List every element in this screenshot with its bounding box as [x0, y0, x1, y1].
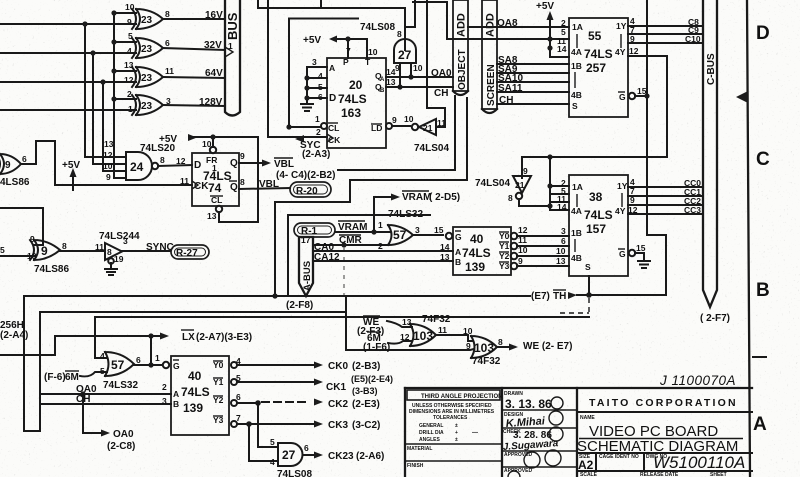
wire 163 pin3 A [307, 57, 327, 67]
svg-text:+5V: +5V [303, 35, 321, 46]
svg-text:4Y: 4Y [615, 47, 626, 57]
ground (163 inputs) [301, 104, 313, 111]
xor gate 23c (64V) [124, 60, 174, 87]
svg-text:128V: 128V [199, 97, 223, 108]
svg-text:OA8: OA8 [497, 18, 518, 29]
wire crease dashed [343, 248, 345, 300]
svg-text:9: 9 [5, 160, 11, 171]
svg-text:24: 24 [130, 160, 144, 174]
svg-text:B: B [756, 280, 770, 301]
wire vertical feed x93 [93, 53, 126, 164]
svg-text:139: 139 [465, 260, 485, 274]
svg-text:VBL: VBL [259, 179, 279, 190]
svg-text:74: 74 [208, 181, 222, 195]
label 74LS04 a [414, 143, 449, 154]
svg-text:SYNC: SYNC [146, 242, 174, 253]
wire vertical feed x85 [85, 24, 126, 157]
svg-text:4LS86: 4LS86 [0, 177, 30, 188]
svg-text:3: 3 [415, 225, 420, 235]
border zone letter A [753, 414, 767, 435]
svg-text:13: 13 [104, 139, 114, 149]
svg-text:6: 6 [136, 355, 141, 365]
wire xor input row4 [0, 109, 136, 111]
label 74F32 a [422, 314, 451, 325]
svg-text:4B: 4B [571, 253, 582, 263]
svg-text:THIRD ANGLE PROJECTION: THIRD ANGLE PROJECTION [421, 394, 502, 400]
svg-text:57: 57 [393, 228, 407, 242]
svg-text:9: 9 [30, 234, 35, 244]
svg-text:12: 12 [176, 156, 186, 166]
svg-text:11: 11 [438, 325, 447, 335]
wire SA11 [497, 83, 569, 94]
wire CA12 [313, 252, 453, 263]
wire and27a input 9 [397, 63, 402, 90]
wire 128V [163, 97, 225, 108]
svg-text:74LS04: 74LS04 [414, 143, 449, 154]
wire frame line y314 [95, 316, 589, 318]
svg-text:12: 12 [103, 150, 113, 160]
wire CMR to or57a [313, 241, 386, 251]
svg-text:10: 10 [556, 246, 566, 256]
svg-text:CH: CH [499, 95, 513, 106]
title block sign column [502, 391, 577, 477]
svg-text:6: 6 [304, 443, 309, 453]
wire SYNC [122, 242, 174, 253]
wire 157 output CC1 [628, 186, 703, 197]
svg-text:(3-C2): (3-C2) [352, 420, 380, 431]
inverter 21b (74LS04, pointing down) [508, 166, 531, 203]
svg-text:8: 8 [62, 241, 67, 251]
label 74LS08 a [360, 22, 395, 33]
wire 257 output C8 [628, 16, 703, 27]
wire inverter 21a input net [427, 0, 445, 127]
wire 257 output C10 [628, 34, 703, 44]
label 74LS86 a [0, 177, 30, 188]
wire SA8 [497, 55, 569, 66]
wire +5V rail 163 [338, 36, 378, 58]
svg-text:CA12: CA12 [314, 252, 340, 263]
wire LX branch to or57b output [148, 336, 153, 368]
wire xor input row3 [0, 81, 136, 83]
svg-text:12: 12 [400, 332, 410, 342]
svg-text:1A: 1A [572, 22, 583, 32]
label 74LS04 b [475, 178, 510, 189]
label +5V (163) [303, 35, 337, 46]
svg-text:38: 38 [589, 190, 603, 204]
svg-text:( 2-F7): ( 2-F7) [700, 313, 730, 324]
svg-text:23: 23 [141, 101, 153, 112]
svg-text:(2-C8): (2-C8) [107, 441, 135, 452]
wire +5V 257 [547, 11, 570, 57]
wire 257 output 4Y down to inverter 21b [522, 46, 667, 178]
svg-text:5: 5 [100, 366, 105, 376]
svg-text:2: 2 [162, 382, 167, 392]
svg-text:+: + [455, 430, 458, 436]
wire CK23 [303, 451, 384, 462]
svg-text:(4- C4)(2-B2): (4- C4)(2-B2) [276, 170, 335, 181]
svg-text:1A: 1A [572, 182, 583, 192]
svg-text:57: 57 [111, 358, 125, 372]
svg-text:14: 14 [557, 202, 567, 212]
wire CK input 74LS74 [36, 141, 192, 186]
svg-text:8: 8 [160, 155, 165, 165]
wire staircase B [288, 215, 430, 296]
svg-text:9: 9 [41, 244, 48, 258]
svg-text:FINISH: FINISH [407, 463, 424, 469]
svg-text:C: C [756, 149, 770, 170]
svg-text:10: 10 [463, 326, 473, 336]
wire frame TH line y296 [24, 296, 530, 431]
svg-text:8: 8 [107, 247, 112, 257]
svg-text:10: 10 [103, 161, 113, 171]
wire OA0 branch down [83, 394, 135, 452]
connector (R-27) [171, 245, 209, 259]
svg-text:(2-A6): (2-A6) [356, 451, 384, 462]
xor gate 86b (sync) [27, 234, 67, 261]
svg-text:9: 9 [523, 166, 528, 176]
or gate 57b (74LS32) [100, 351, 141, 376]
wire VRAM branch up [374, 194, 400, 233]
svg-text:CAGE IDENT NO: CAGE IDENT NO [599, 454, 639, 460]
wire 163 CK pin2 [268, 127, 327, 137]
wire Y2 branch to and27b [258, 403, 278, 447]
svg-text:B: B [173, 399, 179, 409]
svg-text:74F32: 74F32 [422, 314, 451, 325]
svg-text:CK1: CK1 [326, 382, 346, 393]
wire 157 S pin [588, 276, 590, 295]
wire and27a output [405, 0, 415, 50]
svg-text:4: 4 [318, 71, 323, 81]
svg-text:23: 23 [141, 44, 153, 55]
wire xor86a output [21, 141, 36, 164]
svg-text:4B: 4B [571, 90, 582, 100]
svg-text:12: 12 [124, 75, 134, 85]
svg-text:13: 13 [440, 252, 450, 262]
svg-text:RELEASE DATE: RELEASE DATE [640, 472, 679, 477]
svg-text:10: 10 [413, 63, 423, 73]
label WE (2-F3) [357, 316, 412, 337]
svg-text:74LS08: 74LS08 [277, 469, 312, 477]
label SYC (2-A3) [295, 135, 330, 160]
bus bar SCREEN ADD [482, 0, 497, 113]
label VRAM (on wire) [338, 221, 367, 233]
svg-text:15: 15 [637, 86, 647, 96]
svg-text:20: 20 [349, 78, 363, 92]
svg-text:11: 11 [180, 176, 189, 186]
svg-text:+5V: +5V [62, 160, 80, 171]
svg-text:15: 15 [636, 243, 646, 253]
svg-text:9: 9 [127, 17, 132, 27]
svg-text:1B: 1B [571, 228, 582, 238]
svg-text:R-20: R-20 [296, 186, 318, 197]
svg-text:(2-B3): (2-B3) [352, 361, 380, 372]
svg-text:74LS: 74LS [338, 92, 367, 106]
wire top feed y8 [258, 0, 405, 27]
wire 139a Y3 to 157 [511, 256, 569, 269]
svg-text:(2-A7)(3-E3): (2-A7)(3-E3) [196, 332, 252, 343]
svg-text:40: 40 [188, 369, 202, 383]
svg-text:ANGLES: ANGLES [419, 437, 441, 443]
svg-text:10: 10 [518, 245, 528, 255]
svg-text:6: 6 [318, 92, 323, 102]
wire vertical feed x103 [103, 82, 126, 171]
svg-text:±: ± [455, 437, 458, 443]
wire xor pin5 stub [114, 41, 136, 43]
wire xor86b input 9 [0, 208, 43, 245]
svg-text:BUS: BUS [225, 12, 240, 40]
svg-text:13: 13 [124, 60, 134, 70]
svg-text:23: 23 [141, 15, 153, 26]
svg-text:12: 12 [629, 46, 639, 56]
wire 139b Y1 CK1 [231, 373, 393, 396]
svg-text:2: 2 [127, 89, 132, 99]
wire 163 ground stem [304, 67, 309, 102]
svg-text:12: 12 [628, 205, 638, 215]
svg-text:74LS: 74LS [462, 246, 491, 260]
svg-text:G: G [455, 232, 462, 242]
svg-text:R-27: R-27 [176, 248, 198, 259]
svg-text:8: 8 [508, 193, 513, 203]
svg-text:5: 5 [128, 31, 133, 41]
svg-text:A: A [329, 63, 335, 73]
svg-text:SCREEN: SCREEN [486, 64, 497, 106]
junction dots top-left [82, 10, 116, 101]
svg-text:8: 8 [397, 29, 402, 39]
svg-text:CK23: CK23 [328, 451, 354, 462]
wire xor input row2 [0, 52, 136, 54]
svg-text:(3-B3): (3-B3) [352, 386, 378, 396]
svg-text:11: 11 [518, 235, 527, 245]
svg-text:G: G [173, 361, 180, 371]
svg-text:74LS: 74LS [584, 47, 613, 61]
connector (R-1) [294, 223, 335, 237]
svg-text:CK0: CK0 [328, 361, 348, 372]
connector (R-20) [290, 182, 331, 197]
svg-text:(2-A4): (2-A4) [0, 330, 28, 341]
svg-text:B: B [455, 257, 461, 267]
svg-text:6M: 6M [65, 372, 79, 383]
svg-text:TAITO CORPORATION: TAITO CORPORATION [589, 397, 738, 409]
wire 139b Y0 CK0 [231, 356, 380, 372]
svg-text:8: 8 [165, 9, 170, 19]
wire 157 G pin15 to ground [635, 243, 650, 268]
svg-text:103: 103 [413, 329, 433, 343]
and gate 27a (74LS08 top, pointing up) [394, 29, 423, 73]
svg-text:257: 257 [586, 61, 606, 75]
label 74LS86 b [34, 264, 69, 275]
wire nand24 output to D [158, 156, 192, 166]
svg-text:74LS: 74LS [584, 208, 613, 222]
wire 64V [163, 68, 225, 79]
wire 163 pin4 [307, 71, 327, 81]
svg-text:3. 13. 86: 3. 13. 86 [505, 397, 552, 411]
svg-text:—: — [472, 430, 478, 436]
svg-text:1: 1 [378, 220, 383, 230]
wire 257 output C9 [628, 25, 703, 35]
svg-text:DRILL DIA: DRILL DIA [419, 430, 444, 436]
svg-text:VRAM: VRAM [402, 192, 431, 203]
label 74F32 b [472, 356, 501, 367]
257 left pin labels [557, 18, 567, 54]
xor gate 86a (top left partial) [0, 154, 27, 174]
svg-text:21: 21 [423, 123, 433, 133]
svg-text:8: 8 [240, 177, 245, 187]
wire 163 pin5 [307, 82, 327, 92]
svg-text:163: 163 [341, 106, 361, 120]
svg-text:OA0: OA0 [431, 68, 452, 79]
svg-text:3: 3 [312, 57, 317, 67]
svg-text:MATERIAL: MATERIAL [407, 446, 432, 452]
and gate 27b (74LS08) [278, 443, 309, 466]
label 6M (1-F6) [363, 332, 412, 353]
label 74LS32 a [388, 209, 423, 220]
svg-text:9: 9 [630, 195, 635, 205]
xor gate 23b (32V) [127, 31, 170, 58]
svg-text:27: 27 [282, 448, 296, 462]
svg-text:21: 21 [515, 180, 525, 190]
bus bar A-BUS (middle left, down arrow) [299, 235, 313, 296]
svg-text:3: 3 [162, 396, 167, 406]
wire 257 G pin15 net [589, 0, 666, 295]
wire xor86b to buffer [60, 250, 105, 252]
buffer 74LS244 [95, 236, 128, 264]
svg-text:J 1100070A: J 1100070A [659, 373, 736, 388]
or gate 103b (74F32) [466, 336, 503, 358]
label (2-F8) [286, 300, 313, 311]
svg-text:S: S [572, 101, 578, 111]
svg-text:9: 9 [518, 256, 523, 266]
label (E7) TH [531, 290, 592, 302]
svg-text:(2-A3): (2-A3) [302, 149, 330, 160]
wire 256H entry [0, 320, 160, 355]
wire inverter 21b output [519, 199, 550, 206]
svg-text:ADD: ADD [485, 13, 497, 37]
svg-text:1: 1 [155, 353, 160, 363]
svg-text:Q: Q [230, 182, 238, 193]
svg-text:14: 14 [440, 242, 450, 252]
svg-text:10: 10 [125, 2, 135, 12]
svg-text:7: 7 [346, 46, 351, 56]
wire SA9 [497, 64, 569, 75]
flip-flop 74LS74 box [192, 139, 245, 221]
wire 163 LD to inverter [386, 115, 410, 129]
svg-text:R-1: R-1 [301, 226, 318, 237]
svg-text:G: G [619, 92, 626, 102]
svg-text:5: 5 [318, 82, 323, 92]
wire 163 QB (CH) [386, 77, 453, 99]
svg-text:9: 9 [240, 151, 245, 161]
decoder 74LS139 box a [446, 227, 511, 275]
svg-text:74LS08: 74LS08 [360, 22, 395, 33]
svg-text:WE (2- E7): WE (2- E7) [523, 341, 572, 352]
svg-text:4: 4 [270, 457, 275, 467]
svg-text:1: 1 [315, 114, 320, 124]
svg-text:A2: A2 [578, 458, 594, 472]
svg-text:ADD: ADD [456, 13, 468, 37]
svg-text:5: 5 [0, 245, 5, 255]
title block frame [405, 388, 752, 477]
wire 157 output CC3 [628, 205, 703, 215]
svg-text:C10: C10 [685, 34, 701, 44]
wire 139a Y2 to 157 [511, 245, 569, 259]
wire 103a out to 103b [436, 326, 473, 341]
svg-text:W5100110A: W5100110A [653, 453, 745, 472]
svg-text:8: 8 [498, 337, 503, 347]
border zone letter D [756, 23, 770, 44]
wire VBL continues to object bus [338, 96, 455, 170]
svg-text:12: 12 [518, 225, 528, 235]
svg-text:6: 6 [561, 236, 566, 246]
title block specs cell [405, 390, 502, 469]
svg-text:1Y: 1Y [617, 181, 628, 191]
svg-text:9: 9 [630, 34, 635, 44]
svg-text:13: 13 [402, 317, 412, 327]
label (F-6) 6M [44, 371, 107, 383]
svg-text:32V: 32V [204, 40, 222, 51]
svg-text:NAME: NAME [580, 415, 595, 421]
label +5V (257) [536, 1, 554, 12]
svg-text:10: 10 [404, 114, 414, 124]
wire 139b Y3 CK3 [231, 413, 380, 431]
svg-text:10: 10 [368, 47, 378, 57]
inverter 21a (74LS04, pointing left) [404, 114, 446, 135]
wire CH to S [497, 95, 569, 106]
svg-text:11: 11 [165, 66, 174, 76]
label 74LS32 b [103, 380, 138, 391]
wire 16V [163, 10, 225, 21]
svg-text:2: 2 [316, 127, 321, 137]
border zone letter B [756, 280, 770, 301]
svg-text:4A: 4A [571, 206, 582, 216]
wire WE pin9 feed [346, 296, 474, 350]
label J 1100070A [659, 373, 736, 388]
label (2-F7) [700, 313, 730, 324]
svg-text:13: 13 [207, 211, 217, 221]
svg-text:74LS04: 74LS04 [475, 178, 510, 189]
svg-text:1Y: 1Y [616, 21, 627, 31]
counter 74LS163 box [327, 57, 386, 148]
xor gate 23a (16V) [125, 2, 170, 29]
svg-text:CC3: CC3 [684, 205, 701, 215]
svg-text:(2-F8): (2-F8) [286, 300, 313, 311]
wire dashed S continuation [560, 298, 589, 313]
wire 163 CL pin1 [286, 114, 327, 130]
svg-text:SA11: SA11 [498, 83, 523, 94]
wire CA0 [313, 242, 453, 253]
svg-text:157: 157 [586, 222, 606, 236]
svg-text:S: S [585, 262, 591, 272]
svg-text:14: 14 [386, 67, 396, 77]
nand gate 24 (74LS20) [103, 139, 165, 182]
svg-text:CK2: CK2 [328, 399, 348, 410]
svg-text:(E5)(2-E4): (E5)(2-E4) [351, 374, 393, 384]
157 left pin labels [556, 178, 567, 266]
svg-text:9: 9 [106, 172, 111, 182]
svg-text:CL: CL [328, 123, 339, 133]
svg-text:GENERAL: GENERAL [419, 423, 443, 429]
svg-text:13: 13 [386, 77, 396, 87]
label +5V (left) [62, 160, 80, 190]
wire 139a Y0 to 157 [511, 225, 569, 239]
svg-text:D: D [329, 93, 336, 104]
svg-text:15: 15 [434, 225, 444, 235]
svg-text:TOLERANCES: TOLERANCES [433, 415, 468, 421]
svg-text:CH: CH [434, 88, 448, 99]
label VRAM (2-D5) [402, 191, 460, 203]
svg-text:103: 103 [474, 341, 494, 355]
svg-text:CK3: CK3 [328, 420, 348, 431]
svg-text:4: 4 [100, 351, 105, 361]
